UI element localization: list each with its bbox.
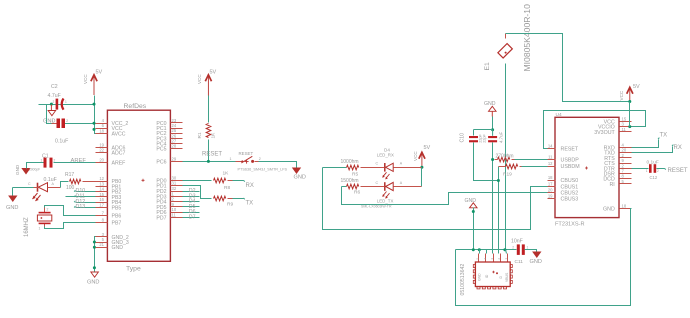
wire/net label D3 [183,193,200,199]
pin 16 PB4 (left) [96,197,122,206]
LED D5 LED_TX [361,181,422,208]
svg-text:R1: R1 [197,132,203,138]
svg-text:D13: D13 [76,204,86,210]
svg-text:0.1uF: 0.1uF [647,160,659,166]
wire LED to R17 [61,182,69,188]
wire D- (cap to R18 to USB) [492,143,494,254]
svg-text:2700hm: 2700hm [496,154,514,160]
svg-text:32: 32 [172,186,177,191]
svg-text:1500hm: 1500hm [341,178,359,184]
svg-text:16MHZ: 16MHZ [24,217,30,237]
wire/net label D7 [183,215,200,221]
pin 31 PD1 (right) [156,181,182,190]
wire R5 to CBUS1 (long bottom route) [323,168,548,230]
wire 5V to R1 [208,96,210,123]
svg-text:30: 30 [172,175,177,180]
pin 24 PC1 (right) [156,123,182,132]
svg-text:5V: 5V [633,84,640,90]
wire AREF net [27,163,96,169]
op-amp: USB-serial IC U4 FT231XS-R box [555,112,619,228]
crystal Q1 16MHZ [24,208,52,238]
resistor R1 1K (pullup) [197,124,217,139]
svg-text:1: 1 [646,169,648,173]
junction VCCIO [628,125,631,128]
net label RX [246,183,254,189]
USB connector J1 (micro-B) [460,254,513,296]
pin 4 RXD (FT right) [604,143,632,152]
svg-text:VCC: VCC [619,90,624,100]
pin 18 GND (FT right) [603,204,631,213]
FT origin cross [585,167,588,170]
wire C2 row y=104.1 [39,104,95,106]
ground GND (LED) [6,188,18,212]
capacitor C3 0.1uF [52,119,69,145]
ground GND (USB filter) [484,101,496,130]
svg-text:1: 1 [230,157,232,161]
pin 26 PC3 (right) [156,133,182,142]
svg-text:RefDes: RefDes [124,103,147,110]
wire R9 to TX flag [233,198,245,199]
svg-text:18: 18 [99,128,104,133]
pin 9 CTS (FT right) [604,158,631,167]
svg-text:GND: GND [15,164,20,175]
svg-text:18: 18 [548,175,553,180]
svg-text:1: 1 [39,227,41,231]
value labels C10 / 22pF / 4.7uF [460,131,504,143]
wire LED anode rail [421,168,423,187]
ground GND (ATmega) [87,272,99,286]
svg-text:21: 21 [99,242,104,247]
pin 2 DTR (FT right) [604,163,632,172]
pin 7 PB6 (left) [96,211,122,220]
svg-text:PB7: PB7 [112,220,122,226]
svg-text:RI: RI [609,182,614,188]
junction R18 [491,158,494,161]
pin 30 PD0 (right) [156,175,182,184]
pin 11 USBDP (FT left) [548,155,580,164]
svg-text:R6: R6 [354,189,360,195]
pin 2 RTS (FT right) [604,153,631,162]
wire E1 to FT VCC [506,34,630,102]
junction usb vbus [503,248,506,251]
wire 5V rail vertical x=94 [95,96,97,134]
junction usb gnd-net [472,248,475,251]
pin 23 PC0 (right) [156,118,182,127]
svg-text:13: 13 [99,181,104,186]
svg-text:C11: C11 [515,259,524,265]
supply +5V arrow (R1 pullup) [197,70,217,96]
ground GND (switch) [293,168,306,181]
junction FT VCC [628,100,631,103]
wire cap tops [474,130,493,136]
svg-text:VCC: VCC [413,151,418,161]
pin 5 GND_3 (left) [96,237,129,246]
svg-text:GND: GND [6,205,18,211]
wire C12 to RESET label [657,168,666,169]
wire R19 to USBDM [522,166,548,168]
pin 20 CBUS2 (FT left) [548,187,579,196]
svg-text:1K: 1K [211,132,217,139]
wire usb pin drops [480,250,507,254]
svg-text:PC5: PC5 [156,147,166,153]
svg-text:RESET: RESET [561,147,579,153]
pin 3 VCCIO (FT right) [598,122,631,131]
wire VBUS vertical [505,64,507,250]
resistor R9 1K [214,196,234,207]
pin 18 AVCC (left) [96,128,126,137]
svg-text:PB5: PB5 [112,206,122,212]
svg-text:E1: E1 [484,62,491,71]
svg-text:22: 22 [99,148,104,153]
svg-text:100: 100 [66,185,75,191]
svg-text:CBUS0: CBUS0 [561,178,579,184]
junction RESET/R1 [207,160,210,163]
pin 20 TXD (FT right) [604,148,631,157]
svg-text:Type: Type [126,266,141,273]
junction gnd rail [93,266,96,269]
svg-text:3V3OUT: 3V3OUT [594,130,615,136]
ground GND (USB) [530,252,542,265]
wire/net label D12 (PB4) [74,199,95,205]
svg-text:11: 11 [172,213,177,218]
svg-text:17: 17 [548,181,553,186]
svg-text:CBUS1: CBUS1 [561,184,579,190]
pin 8 DCD (FT right) [603,174,631,183]
svg-text:TX: TX [246,200,254,206]
wire RESET net [183,161,236,163]
wire VCCIO stub [629,122,631,127]
svg-text:GND: GND [87,280,99,286]
svg-text:12: 12 [548,161,553,166]
pin 12 USBDM (FT left) [548,161,580,170]
pin 11 3V3OUT (FT right) [594,127,631,136]
junction caps/gnd [491,128,494,131]
svg-text:AREF: AREF [71,158,87,164]
svg-text:20: 20 [548,187,553,192]
svg-text:PD7: PD7 [156,216,166,222]
wire/net label D6 [183,209,200,215]
svg-text:CBUS2: CBUS2 [561,190,579,196]
svg-text:MI0805K400R-10: MI0805K400R-10 [522,4,532,72]
svg-text:VCC: VCC [83,74,88,84]
svg-text:GND: GND [465,198,477,204]
wire/net label D11 (PB3) [66,194,96,200]
svg-text:2: 2 [259,157,261,161]
svg-text:C: C [376,181,379,185]
junction LED anode rail [420,166,423,169]
pin 19 CBUS3 (FT left) [548,194,579,203]
pin 9 PD5 (right) [156,202,182,211]
svg-text:PC6: PC6 [156,159,166,165]
svg-text:10: 10 [172,207,177,212]
svg-text:17: 17 [99,203,104,208]
svg-text:D7: D7 [189,215,196,221]
wire/net label D5 [183,204,200,210]
wire TXD to RX flag [632,145,674,153]
wire R18 to USBDP [515,159,548,161]
net label RESET [202,152,222,158]
capacitor C11 10nF [511,239,529,266]
svg-text:R8: R8 [224,185,230,191]
pin 20 AREF (left) [96,158,126,167]
svg-text:LED_RX: LED_RX [377,152,394,157]
wire R6 to CBUS2 [342,187,548,205]
resistor R5 1000hm [323,159,375,178]
pin 27 PC4 (right) [156,139,182,148]
wire DTR to C12 [632,168,649,170]
svg-text:5V: 5V [210,70,217,76]
svg-text:5V: 5V [96,70,103,76]
svg-text:TX: TX [660,133,668,139]
svg-text:FT231XS-R: FT231XS-R [555,221,585,227]
svg-text:2: 2 [47,208,49,212]
supply +5V arrow (LEDs) [413,145,431,167]
pin 12 PB0 (left) [96,176,122,185]
junction usb gnd-pin [478,248,481,251]
wire/net label D10 (PB2) [74,188,95,194]
svg-text:C12: C12 [650,175,658,180]
svg-text:GND: GND [112,245,124,251]
pin 21 GND (left) [96,242,124,251]
svg-text:R17: R17 [65,172,74,178]
svg-text:15: 15 [99,192,104,197]
svg-text:2: 2 [54,159,56,163]
pin 13 PB1 (left) [96,181,122,190]
net label RX (FT) [674,145,682,151]
svg-text:11: 11 [622,127,627,132]
resistor R19 270ohm [499,164,522,177]
svg-text:31: 31 [172,181,177,186]
wire XTAL1 (PB6) [45,206,96,216]
svg-text:C: C [28,182,31,186]
pin 14 RESET (FT left) [548,144,579,153]
capacitor C10a 22pF [469,136,478,142]
wire XTAL2 (PB7) [45,223,96,229]
pin 3 GND_2 (left) [96,232,129,241]
svg-text:1000pF: 1000pF [29,168,40,172]
pin 4 VCC_2 (left) [96,118,129,127]
svg-text:22pF: 22pF [482,133,486,142]
pin 14 PB2 (left) [96,187,122,196]
resistor R8 1K [214,171,233,192]
svg-text:VBUS: VBUS [505,272,509,282]
svg-text:LED_TX: LED_TX [377,198,394,203]
svg-text:05100513642: 05100513642 [460,264,466,296]
pin 15 VCC (FT right) [604,116,632,125]
svg-text:1K: 1K [223,171,230,177]
svg-text:1: 1 [527,246,529,250]
net label TX (FT) [660,133,668,139]
svg-text:GND: GND [478,273,482,281]
svg-text:USBDM: USBDM [561,164,580,170]
svg-text:28: 28 [172,144,177,149]
capacitor C1 1000pF [29,154,56,172]
wire switch to GND [259,162,297,168]
svg-text:29: 29 [172,156,177,161]
wire RESET/VCCIO loop [544,111,646,149]
junction rail pin4 [93,122,96,125]
supply +5V arrow (FT VCC) [619,84,640,102]
wire USB top rail [456,249,517,251]
pin 25 PC2 (right) [156,128,182,137]
svg-text:19: 19 [548,194,553,199]
capacitor C10b 22pF [488,130,497,143]
capacitor C2 4.7uF (polarized) [48,84,68,110]
pin 32 PD2 (right) [156,186,182,195]
svg-text:GND: GND [294,175,306,181]
pin 15 PB3 (left) [96,192,122,201]
svg-text:1: 1 [65,100,67,104]
svg-text:RX: RX [674,145,682,151]
pin 8 PB7 (left) [96,217,122,226]
LED D3 (green, on PB0) [13,182,61,201]
pin 11 PD7 (right) [156,213,182,222]
ground GND (AREF filter) [15,164,30,175]
MCU origin cross [142,179,145,182]
svg-text:2: 2 [66,119,68,123]
svg-text:0.1uF: 0.1uF [55,139,68,145]
svg-text:14: 14 [548,144,553,149]
svg-text:18: 18 [622,204,627,209]
svg-text:RESET: RESET [239,151,254,156]
svg-text:RESET: RESET [668,168,688,174]
ferrite bead E1 MI0805K400R-10 [484,4,532,72]
svg-text:GND: GND [484,101,496,107]
svg-text:C2: C2 [51,84,58,90]
svg-text:AREF: AREF [112,161,126,167]
resistor R18 270ohm [495,154,515,162]
pin 29 PC6 (right) [156,156,182,165]
svg-text:PTS636_SM43J_SMTR_LFS: PTS636_SM43J_SMTR_LFS [238,168,288,172]
resistor R6 1500hm [341,178,375,195]
net label AREF [71,158,87,164]
svg-text:USBDP: USBDP [561,158,580,164]
wire D+ branch [474,143,499,254]
svg-text:10nF: 10nF [511,239,523,245]
wire R1 to RESET [208,140,210,162]
svg-text:ID: ID [485,274,489,278]
junction D+ [497,179,500,182]
svg-text:1: 1 [52,119,54,123]
svg-text:U4: U4 [556,112,562,118]
pin 10 PD6 (right) [156,207,182,216]
svg-text:RX: RX [246,183,254,189]
svg-text:16: 16 [99,197,104,202]
pin 22 ADC7 (left) [96,148,126,157]
svg-text:VCC: VCC [197,74,202,84]
svg-text:GND: GND [603,207,615,213]
wire/net label D4 [183,199,200,205]
resistor R17 100 [44,172,96,191]
junction gnd pin5 [93,241,96,244]
svg-text:2: 2 [657,169,659,173]
pin 5 RI (FT right) [609,179,631,188]
svg-text:C1: C1 [42,154,49,160]
LED D4 LED_RX [375,148,422,180]
svg-text:4.7uF: 4.7uF [498,131,503,143]
svg-text:2: 2 [53,100,55,104]
ground GND (mid, USB shield) [465,198,478,250]
pin 28 PC5 (right) [156,144,182,153]
svg-text:4.7uF: 4.7uF [48,93,61,99]
svg-text:1: 1 [510,271,512,275]
wire FT GND to bottom rail [456,209,632,306]
svg-text:C: C [376,162,379,166]
svg-text:R9: R9 [227,202,233,208]
svg-text:5V: 5V [424,145,431,151]
pin 18 CBUS0 (FT left) [548,175,579,184]
supply +5V arrow (left, VCC net) [83,70,103,96]
junction rail/0.1uF [93,128,96,131]
op-amp: main MCU IC U1 "RefDes" box [107,103,170,273]
pin 2 PD4 (right) [156,197,182,206]
svg-text:2: 2 [512,246,514,250]
junction rail/C2 [93,103,96,106]
svg-text:PB6: PB6 [112,214,122,220]
pin 17 CBUS1 (FT left) [548,181,579,190]
capacitor C12 0.1uF (auto-reset) [646,160,659,180]
wire/net label D2 [183,188,200,194]
wire 0.1uF branch [47,105,95,124]
svg-text:ADC7: ADC7 [112,151,126,157]
switch S1 RESET (PTS636) [230,151,288,171]
svg-text:0.1uF: 0.1uF [44,177,57,183]
svg-text:11: 11 [548,155,553,160]
pin 17 PB5 (left) [96,203,122,212]
svg-text:GND: GND [530,259,542,265]
junction gnd pin21 [93,246,96,249]
svg-text:R19: R19 [503,172,512,178]
wire C11 to GND [525,250,537,252]
pin 19 ADC6 (left) [96,142,126,151]
svg-text:CBUS3: CBUS3 [561,197,579,203]
wire RXD to TX flag [632,138,660,148]
wire PD1 to R9 [183,186,212,199]
pin 7 DSR (FT right) [604,169,632,178]
junction C2/GND [50,103,53,106]
wire GND pins 3/5/21 [95,237,96,272]
svg-text:RESET: RESET [202,152,222,158]
junction gnd mid [472,210,475,213]
svg-text:1000hm: 1000hm [341,159,359,165]
net label TX [246,200,254,206]
svg-text:C10: C10 [460,133,466,143]
pin 6 VCC (left) [96,123,123,132]
wire FT VCC drop [629,102,631,122]
svg-text:20: 20 [99,158,104,163]
svg-text:R5: R5 [352,172,358,178]
wire PD0 to R8 [183,180,212,182]
pin 1 PD3 (right) [156,191,182,200]
svg-text:12: 12 [99,176,104,181]
ground GND (left of C2) [43,105,56,125]
svg-text:AVCC: AVCC [112,131,126,137]
wire R8 to RX flag [233,180,245,181]
svg-text:14: 14 [99,187,104,192]
wire/net label D13 (PB5) [74,204,95,210]
net label RESET (right) [668,168,688,174]
